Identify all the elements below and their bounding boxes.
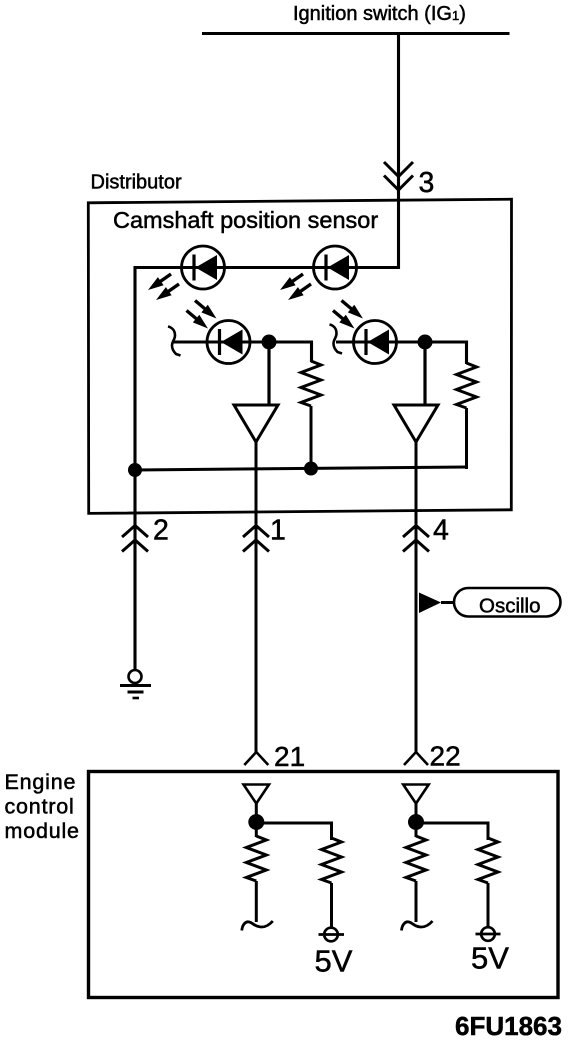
svg-text:21: 21: [274, 741, 305, 772]
svg-text:1: 1: [270, 515, 286, 547]
svg-text:5V: 5V: [315, 944, 353, 979]
svg-text:module: module: [5, 819, 80, 843]
svg-text:Camshaft position sensor: Camshaft position sensor: [113, 207, 378, 233]
svg-text:Ignition switch (IG1): Ignition switch (IG1): [293, 3, 466, 25]
svg-text:6FU1863: 6FU1863: [455, 1011, 562, 1041]
svg-text:control: control: [5, 795, 75, 819]
svg-text:5V: 5V: [471, 941, 509, 976]
svg-text:22: 22: [430, 741, 461, 772]
svg-text:3: 3: [419, 167, 435, 199]
svg-text:2: 2: [153, 515, 169, 547]
svg-text:Distributor: Distributor: [91, 172, 182, 194]
svg-text:Engine: Engine: [5, 770, 77, 794]
svg-text:Oscillo: Oscillo: [479, 595, 541, 618]
svg-text:4: 4: [433, 515, 449, 547]
